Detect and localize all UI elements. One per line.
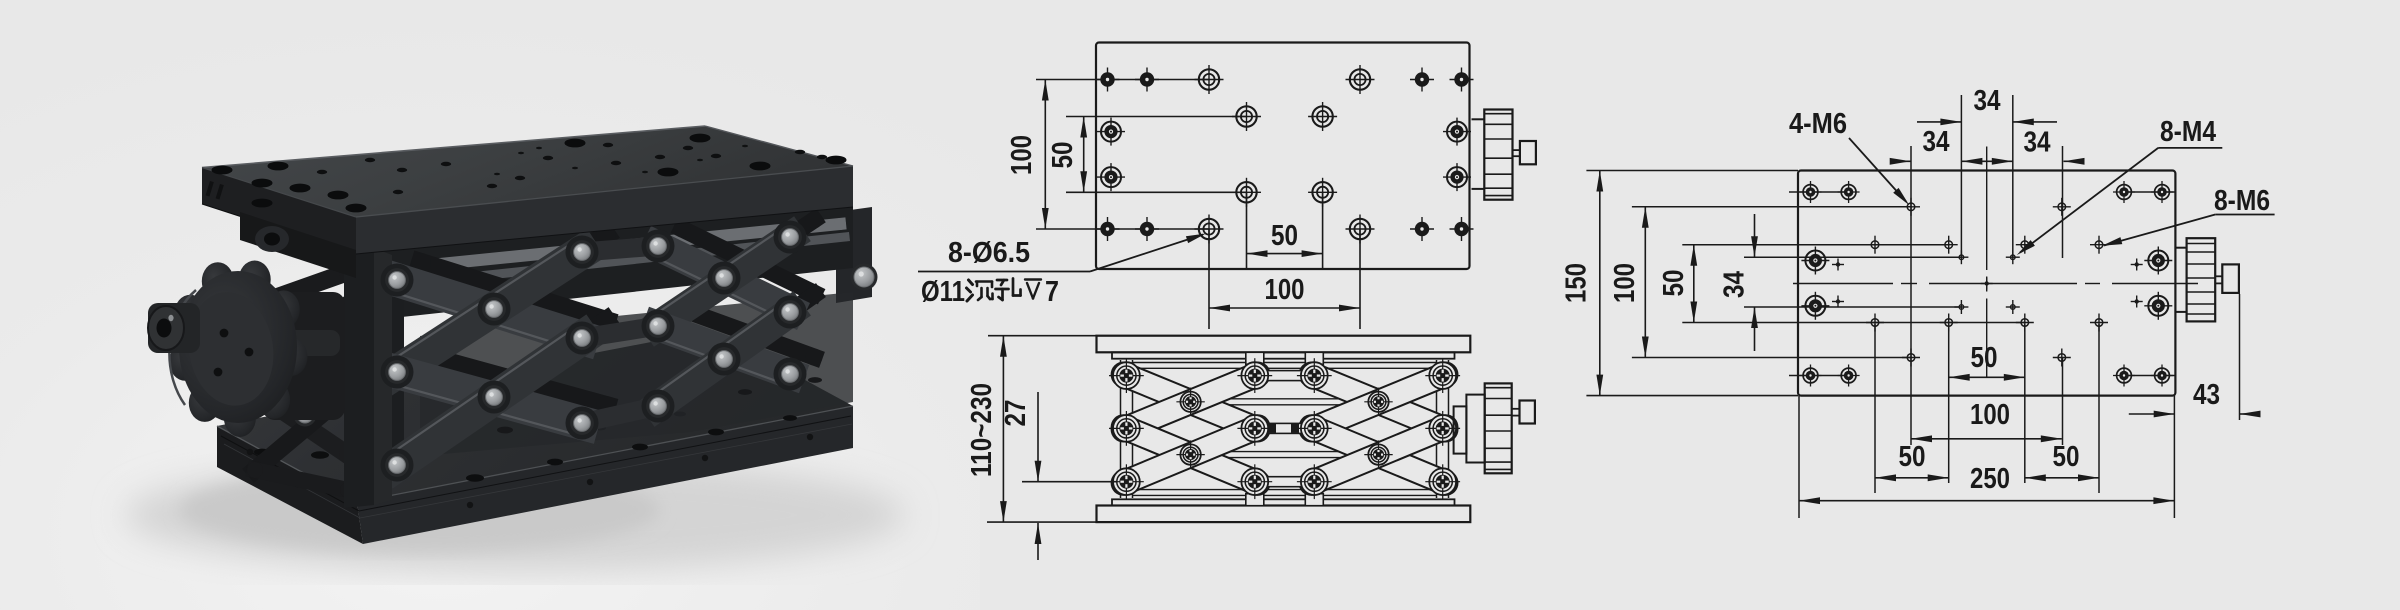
svg-text:100: 100 [1970,399,2010,431]
svg-text:34: 34 [2024,127,2051,159]
svg-text:Ø11: Ø11 [921,276,965,308]
svg-text:50: 50 [1971,342,1998,374]
svg-text:100: 100 [1265,274,1305,306]
svg-text:34: 34 [1923,126,1950,158]
svg-text:150: 150 [1561,263,1593,303]
svg-text:8-M4: 8-M4 [2160,116,2216,148]
svg-text:34: 34 [1974,85,2001,117]
svg-text:7: 7 [1045,276,1059,308]
svg-text:110~230: 110~230 [966,383,998,477]
svg-text:250: 250 [1970,463,2010,495]
svg-text:50: 50 [1658,270,1690,297]
svg-text:43: 43 [2193,379,2220,411]
svg-text:27: 27 [1000,400,1032,427]
svg-text:8-M6: 8-M6 [2214,185,2270,217]
svg-text:4-M6: 4-M6 [1789,108,1847,140]
svg-text:100: 100 [1609,263,1641,303]
svg-text:100: 100 [1006,135,1038,175]
svg-text:50: 50 [2053,441,2080,473]
svg-text:8-Ø6.5: 8-Ø6.5 [948,237,1030,269]
svg-text:50: 50 [1047,142,1079,169]
svg-text:34: 34 [1719,271,1751,298]
svg-text:50: 50 [1271,220,1298,252]
svg-text:50: 50 [1899,441,1926,473]
